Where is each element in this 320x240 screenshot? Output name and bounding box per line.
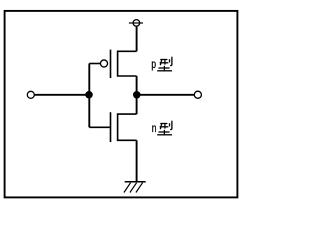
svg-text:n: n: [152, 123, 157, 136]
svg-text:p: p: [151, 59, 156, 72]
